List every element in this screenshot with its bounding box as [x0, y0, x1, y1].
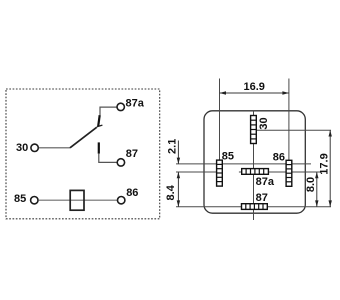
svg-text:2.1: 2.1 [166, 139, 178, 154]
pin 87 blade slot [242, 204, 268, 210]
wire from contact 87a to terminal 87a [100, 107, 117, 115]
svg-text:85: 85 [222, 150, 234, 162]
svg-text:87: 87 [126, 148, 138, 160]
fixed contact 87a (normally closed) [98, 115, 100, 126]
extension line from pin 85 for 16.9 dimension [219, 79, 221, 165]
terminal 87 [117, 159, 124, 166]
svg-text:87a: 87a [256, 176, 275, 188]
wire from contact 87 to terminal 87 [99, 154, 117, 163]
terminal 85 [31, 197, 38, 204]
switch armature (common pole of changeover contact) [70, 127, 97, 148]
reference line at 87 centre [176, 206, 331, 208]
arrowhead bottom of 8.0 [315, 200, 318, 206]
arrowhead of 2.1 pointing down [177, 158, 180, 164]
extension line from pin 86 for 16.9 dimension [288, 79, 290, 165]
dimension line 17.9 [329, 130, 331, 207]
vertical centerline through pin 30, 87a, 87 [253, 111, 255, 220]
wire from terminal 30 to armature pivot [39, 147, 70, 149]
arrowhead right of 16.9 [282, 91, 289, 94]
arrowhead left of 16.9 [220, 91, 227, 94]
arrowhead bottom of 17.9 [329, 200, 332, 206]
svg-text:30: 30 [258, 117, 270, 129]
svg-text:8.4: 8.4 [165, 184, 177, 200]
arrowhead top of 17.9 [329, 130, 332, 136]
svg-text:87a: 87a [126, 98, 145, 110]
svg-text:8.0: 8.0 [305, 177, 317, 192]
terminal 30 [31, 144, 38, 151]
relay base outline (bottom view) [204, 111, 305, 213]
reference line at 87a centre (right) [268, 171, 320, 173]
dimension line 8.0 [316, 172, 318, 207]
arrowhead top of 8.0 [315, 172, 318, 178]
wire through coil from terminal 85 to terminal 86 [39, 199, 118, 201]
pin 85 blade slot [217, 160, 223, 186]
dimension line 8.4 [177, 172, 179, 207]
svg-text:30: 30 [16, 142, 28, 154]
dimension line 16.9 [220, 92, 289, 94]
arrowhead bottom of 8.4 [177, 200, 180, 206]
pin 87a blade slot [242, 169, 269, 175]
svg-text:85: 85 [14, 193, 26, 205]
reference line stub at 87a slot [239, 171, 242, 173]
svg-text:17.9: 17.9 [319, 153, 331, 174]
svg-text:86: 86 [126, 187, 138, 199]
terminal 86 [118, 197, 125, 204]
pin 30 blade slot [251, 116, 257, 144]
svg-text:86: 86 [273, 152, 285, 164]
pin 86 blade slot [286, 160, 292, 186]
armature tip tick [97, 125, 103, 127]
reference line at 87a centre (left) [176, 171, 217, 173]
svg-text:16.9: 16.9 [243, 81, 264, 93]
extension line from pin 30 for 17.9 dimension [256, 129, 331, 131]
reference line at pin tops (2.1 dimension) [176, 163, 311, 165]
relay coil K1 [70, 190, 84, 210]
dimension 2.1 stem [177, 141, 179, 164]
svg-text:87: 87 [256, 192, 268, 204]
fixed contact 87 (normally open) [98, 142, 100, 153]
relay internal schematic dashed enclosure [6, 89, 160, 219]
arrowhead top of 8.4 [177, 172, 180, 178]
terminal 87a [117, 103, 124, 110]
